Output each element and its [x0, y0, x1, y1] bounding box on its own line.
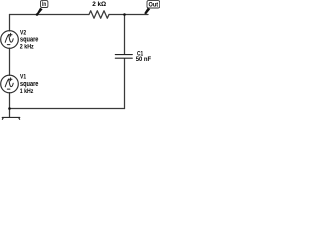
voltage source V1 circle [1, 75, 19, 93]
wire top-right horizontal segment [109, 14, 148, 16]
svg-text:2 kΩ: 2 kΩ [92, 1, 106, 8]
wire left vertical: corner to V2 top [9, 15, 11, 31]
V2 minus sign [7, 44, 10, 46]
svg-text:50 nF: 50 nF [136, 56, 152, 63]
svg-text:square: square [20, 79, 38, 88]
wire V1 bottom to ground [9, 93, 11, 118]
node flag pointer for Out [144, 8, 150, 15]
node flag box In [41, 1, 48, 8]
wire bottom horizontal [10, 108, 125, 110]
V1 waveform glyph [5, 79, 13, 87]
voltage source V2 circle [1, 31, 19, 49]
junction dot at In tap [36, 13, 39, 16]
svg-text:Out: Out [149, 2, 159, 9]
junction dot at capacitor branch / top wire [123, 13, 126, 16]
svg-text:1 kHz: 1 kHz [20, 88, 34, 95]
V2 waveform glyph [5, 34, 13, 42]
svg-text:In: In [42, 2, 46, 8]
node flag pointer for In [36, 8, 42, 16]
node flag box Out [147, 1, 160, 8]
wire capacitor branch bottom [124, 59, 126, 109]
svg-text:square: square [20, 35, 38, 44]
wire top-left horizontal segment [10, 14, 90, 16]
wire capacitor branch top [124, 15, 126, 55]
V1 plus sign [9, 78, 12, 81]
wire between V2 and V1 [9, 48, 11, 75]
V1 minus sign [7, 88, 10, 90]
resistor R (2 kΩ) zigzag [89, 11, 109, 19]
svg-text:2 kHz: 2 kHz [20, 43, 34, 50]
V2 plus sign [9, 33, 12, 36]
ground symbol (chassis) [2, 117, 20, 119]
junction dot at ground / bottom wire [8, 107, 11, 110]
capacitor C1 plates [115, 55, 132, 59]
